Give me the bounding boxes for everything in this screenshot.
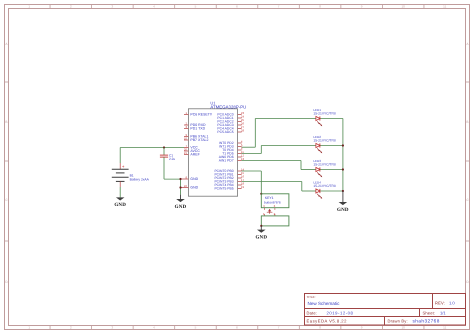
svg-text:PCINT5 PB5: PCINT5 PB5	[214, 187, 233, 191]
svg-text:1/1: 1/1	[440, 310, 446, 315]
IC U1 pin 16 (PCINT2 PB2) right	[214, 174, 244, 180]
svg-text:28: 28	[241, 128, 245, 132]
node junction at IC pin 8 GND	[179, 178, 181, 180]
ground GND at battery B1	[114, 197, 126, 208]
svg-text:11: 11	[443, 5, 446, 9]
LED1 reference label	[313, 108, 321, 112]
title block	[305, 294, 466, 326]
wire loop connecting KEY1 pins 1 and 2 to ground	[261, 216, 289, 226]
node junction at IC pin 22 GND	[179, 186, 181, 188]
svg-text:B: B	[5, 120, 7, 124]
svg-text:KEY1: KEY1	[265, 196, 274, 200]
wire net PD7 to LED3	[242, 161, 316, 170]
KEY1 pin number 4	[263, 204, 265, 208]
LED2 symbol	[316, 143, 322, 153]
node junction LED4 cathode	[342, 190, 344, 192]
IC U1 pin 20 (AVCC) left	[184, 147, 200, 153]
IC U1 pin 24 (PC1 ADC1) right	[217, 114, 244, 120]
svg-text:Sheet:: Sheet:	[423, 310, 436, 315]
wire VCC rail from battery B1 to IC pin 7	[120, 148, 184, 164]
svg-text:New Schematic: New Schematic	[308, 301, 341, 306]
svg-text:19: 19	[241, 185, 245, 189]
battery B1 reference label	[130, 173, 134, 177]
IC U1 pin 1 (PC6 RESET#) left	[184, 111, 212, 117]
node junction at KEY1 top-left	[260, 193, 262, 195]
IC U1 pin 11 (T1 PD5) right	[222, 150, 244, 156]
svg-text:PC5 ADC5: PC5 ADC5	[217, 130, 233, 134]
node junction LED2 cathode	[342, 144, 344, 146]
svg-text:15-21VYC/TR8: 15-21VYC/TR8	[313, 138, 336, 142]
IC U1 pin 22 (GND) left	[181, 184, 199, 190]
wire battery negative to ground	[119, 187, 121, 197]
wire LED4 cathode to ground bus	[320, 190, 343, 192]
LED4 value label 15-21VYC/TR8	[313, 184, 336, 188]
svg-text:21: 21	[184, 151, 188, 155]
svg-text:REV:: REV:	[435, 301, 445, 306]
KEY1 reference label	[265, 196, 274, 200]
wire net PD3 to LED1	[242, 119, 316, 148]
switch KEY1 symbol	[265, 208, 275, 216]
node VCC junction at capacitor C1	[163, 146, 165, 148]
IC U1 value label ATMEGA328P-PU	[210, 104, 246, 109]
wire net PD5 to LED2	[242, 146, 316, 154]
capacitor C1 reference label	[169, 154, 173, 158]
svg-text:Battery 2xAA: Battery 2xAA	[130, 178, 150, 182]
LED1 value label 15-21VYC/TR8	[313, 111, 336, 115]
IC U1 pin 21 (AREF) left	[184, 151, 200, 157]
IC U1 pin 8 (GND) left	[181, 175, 199, 181]
svg-text:TITLE:: TITLE:	[307, 295, 316, 299]
svg-text:Drawn By:: Drawn By:	[388, 319, 408, 324]
LED3 symbol	[316, 167, 322, 177]
wire LED1 cathode to ground bus	[320, 118, 343, 120]
svg-text:ATMEGA328P-PU: ATMEGA328P-PU	[210, 104, 246, 109]
svg-text:+: +	[122, 164, 125, 169]
svg-text:22: 22	[184, 184, 188, 188]
capacitor C1	[160, 148, 168, 180]
IC U1 pin 6 (T0 PD4) right	[222, 146, 243, 152]
ground GND at LED bus	[337, 191, 349, 213]
IC U1 pin 12 (AIN0 PD6) right	[219, 153, 245, 159]
svg-text:GND: GND	[255, 234, 267, 240]
svg-text:button6*6*6: button6*6*6	[264, 201, 281, 205]
node junction at KEY1 bottom-left	[260, 225, 262, 227]
wire capacitor C1 to IC ground pins	[164, 179, 181, 195]
wire LED2 cathode to ground bus	[320, 145, 343, 147]
LED3 value label 15-21VYC/TR8	[313, 162, 336, 166]
svg-text:10: 10	[402, 5, 406, 9]
svg-text:GND: GND	[114, 202, 126, 208]
IC U1 pin 28 (PC5 ADC5) right	[217, 128, 244, 134]
IC U1 pin 19 (PCINT5 PB5) right	[214, 185, 244, 191]
IC U1 pin 10 (PB7 XTAL2) left	[184, 136, 209, 142]
IC U1 pin 7 (VCC) left	[184, 144, 198, 150]
svg-text:2019-12-08: 2019-12-08	[327, 310, 354, 315]
svg-text:15-21VYC/TR8: 15-21VYC/TR8	[313, 184, 336, 188]
node junction LED3 cathode	[342, 168, 344, 170]
wire loop connecting KEY1 pins 4 and 3	[261, 194, 289, 208]
svg-text:10: 10	[184, 136, 188, 140]
KEY1 value label button6*6*6	[264, 201, 281, 205]
battery B1	[112, 163, 129, 187]
svg-text:AIN1 PD7: AIN1 PD7	[219, 159, 234, 163]
svg-text:EasyEDA V5.8.22: EasyEDA V5.8.22	[307, 319, 348, 324]
IC U1 pin 18 (PCINT4 PB4) right	[214, 181, 244, 187]
svg-text:10: 10	[402, 326, 406, 330]
svg-text:15-21VYC/TR8: 15-21VYC/TR8	[313, 162, 336, 166]
IC U1 pin 3 (PD1 TXD) left	[184, 125, 206, 131]
IC U1 pin 23 (PC0 ADC0) right	[217, 111, 244, 117]
IC U1 pin 25 (PC2 ADC2) right	[217, 118, 244, 124]
IC U1 pin 4 (INT0 PD2) right	[219, 139, 243, 145]
svg-text:15-21VYC/TR8: 15-21VYC/TR8	[313, 111, 336, 115]
capacitor C1 value label 2.2u	[169, 157, 175, 161]
svg-text:GND: GND	[337, 207, 349, 213]
ground GND at KEY1	[255, 226, 267, 241]
svg-text:B: B	[466, 120, 468, 124]
LED4 reference label	[313, 181, 321, 185]
LED2 reference label	[313, 135, 321, 139]
wire net PB0 to key KEY1	[242, 171, 262, 194]
LED4 symbol	[316, 189, 322, 199]
wire LED ground bus vertical	[342, 119, 344, 192]
svg-text:2.2u: 2.2u	[169, 157, 175, 161]
wire LED3 cathode to ground bus	[320, 169, 343, 171]
svg-text:AREF: AREF	[190, 153, 199, 157]
svg-text:GND: GND	[190, 177, 198, 181]
IC U1 pin 27 (PC4 ADC4) right	[217, 125, 244, 131]
svg-text:shah32768: shah32768	[413, 319, 440, 324]
LED1 symbol	[316, 116, 322, 126]
LED3 reference label	[313, 159, 321, 163]
KEY1 pin number 2	[274, 212, 276, 216]
IC U1 ATMEGA328P-PU body	[188, 109, 237, 196]
IC U1 reference designator label	[210, 101, 216, 106]
ground GND at IC U1	[175, 195, 187, 210]
svg-text:PC6 RESET#: PC6 RESET#	[190, 113, 211, 117]
IC U1 pin 15 (PCINT1 PB1) right	[214, 171, 244, 177]
IC U1 pin 17 (PCINT3 PB3) right	[214, 178, 244, 184]
svg-text:GND: GND	[190, 186, 198, 190]
LED2 value label 15-21VYC/TR8	[313, 138, 336, 142]
svg-text:PB7 XTAL2: PB7 XTAL2	[190, 138, 208, 142]
svg-text:1.0: 1.0	[449, 301, 455, 306]
IC U1 pin 9 (PB6 XTAL1) left	[184, 133, 208, 139]
svg-text:GND: GND	[175, 204, 187, 210]
IC U1 pin 13 (AIN1 PD7) right	[219, 157, 245, 163]
KEY1 pin number 3	[274, 204, 276, 208]
IC U1 pin 5 (INT1 PD3) right	[219, 143, 243, 149]
IC U1 pin 2 (PD0 RXD) left	[184, 121, 206, 127]
IC U1 pin 26 (PC3 ADC3) right	[217, 121, 244, 127]
KEY1 pin number 1	[263, 212, 265, 216]
IC U1 pin 14 (PCINT0 PB0) right	[214, 167, 244, 173]
svg-text:Date:: Date:	[307, 310, 318, 315]
svg-text:11: 11	[443, 326, 446, 330]
battery B1 value label Battery 2xAA	[130, 178, 150, 182]
svg-text:PD1 TXD: PD1 TXD	[190, 127, 205, 131]
wire net PB3 to LED4	[242, 182, 316, 192]
